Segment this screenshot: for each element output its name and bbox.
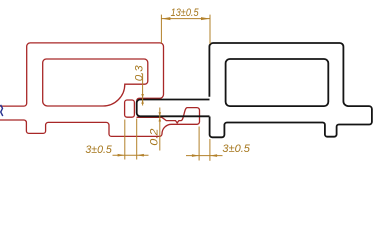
svg-text:3±0.5: 3±0.5: [85, 144, 112, 156]
red bottom flange with nose: [0, 108, 200, 137]
svg-text:13±0.5: 13±0.5: [171, 7, 200, 19]
black flange extending left: [137, 100, 210, 117]
black inner cavity: [226, 59, 329, 106]
dim 0.2 vertical: [159, 108, 161, 151]
blue marker at left edge: [1, 105, 3, 116]
profile left red body outline: [0, 43, 164, 106]
red tongue hook: [125, 100, 135, 117]
profile right black body outline: [209, 43, 372, 137]
dim top arrows: [161, 17, 210, 20]
svg-text:0.3: 0.3: [134, 64, 146, 81]
profile left red inner cavity: [43, 59, 148, 106]
dim top 13+-0.5 ext lines: [161, 15, 210, 44]
svg-text:3±0.5: 3±0.5: [222, 143, 250, 155]
dim bottom-right 3+-0.5: [186, 127, 223, 161]
dim 0.3 vertical: [142, 74, 144, 106]
svg-text:0.2: 0.2: [148, 129, 160, 146]
dim bottom-left 3+-0.5: [113, 119, 149, 160]
